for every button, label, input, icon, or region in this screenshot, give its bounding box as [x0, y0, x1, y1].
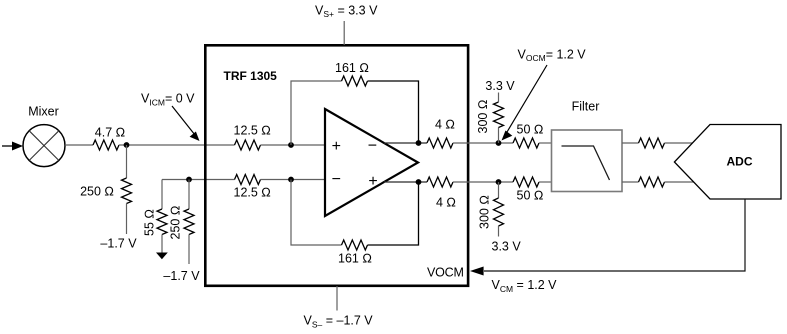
input arrow: [2, 142, 23, 151]
resistor R3 55 ohm: [143, 209, 168, 236]
wire R2 to -1.7V: [126, 204, 128, 235]
svg-text:4.7 Ω: 4.7 Ω: [95, 126, 125, 140]
svg-text:ADC: ADC: [727, 155, 753, 169]
wire fb top right leg: [368, 81, 419, 143]
wire opamp out bottom: [384, 181, 427, 183]
resistor R11 300 ohm (top): [476, 100, 504, 134]
VOCM pointer arrow: [502, 65, 548, 141]
wire node F up: [498, 128, 500, 144]
resistor R2 250 ohm: [80, 178, 131, 204]
resistor R15 (top, to ADC): [639, 138, 665, 148]
node D (fb bottom left): [288, 177, 294, 183]
wire VCM feedback: [484, 199, 745, 271]
node VICM label: [141, 92, 195, 108]
node C (fb top left): [288, 142, 294, 148]
svg-text:VICM= 0 V: VICM= 0 V: [141, 92, 195, 108]
svg-text:250 Ω: 250 Ω: [80, 185, 114, 199]
svg-text:–1.7 V: –1.7 V: [163, 269, 200, 283]
node G (out bottom): [416, 179, 422, 185]
svg-text:50 Ω: 50 Ω: [517, 123, 544, 137]
resistor R13 50 ohm (top): [513, 123, 543, 149]
resistor R4 250 ohm: [169, 206, 195, 240]
resistor R16 (bottom, to ADC): [639, 177, 665, 187]
svg-text:+: +: [368, 173, 377, 190]
wire filter out bottom: [622, 181, 639, 183]
wire R5 to opamp: [261, 144, 326, 146]
svg-text:12.5 Ω: 12.5 Ω: [234, 186, 271, 200]
wire fb bottom left leg: [291, 180, 342, 246]
wire R11 to 3.3V: [498, 93, 500, 103]
amplifier box TRF 1305: [205, 45, 468, 285]
resistor R7 161 ohm (top fb): [335, 61, 369, 86]
node H (out bottom after box): [496, 179, 502, 185]
wire node A down: [126, 145, 128, 178]
svg-text:3.3 V: 3.3 V: [492, 240, 522, 254]
resistor R12 300 ohm (bottom): [478, 195, 504, 229]
op-amp U1 (fully differential): [325, 109, 418, 216]
svg-text:−: −: [368, 138, 377, 155]
wire R1 to box: [119, 144, 235, 146]
svg-text:−: −: [332, 171, 341, 188]
resistor R8 161 ohm (bottom fb): [338, 240, 372, 266]
resistor R10 4 ohm (bottom): [427, 177, 456, 210]
resistor R1 4.7 ohm: [93, 126, 125, 151]
wire R14 to filter: [539, 181, 552, 183]
resistor R9 4 ohm (top): [427, 118, 455, 149]
svg-text:250 Ω: 250 Ω: [169, 206, 183, 240]
svg-text:3.3 V: 3.3 V: [485, 79, 515, 93]
svg-text:50 Ω: 50 Ω: [517, 189, 544, 203]
wire node B down: [188, 180, 190, 210]
svg-text:300 Ω: 300 Ω: [476, 100, 490, 134]
wire R12 to 3.3V: [498, 226, 500, 237]
svg-text:Filter: Filter: [572, 100, 600, 114]
resistor R14 50 ohm (bottom): [513, 177, 543, 203]
wire R16 to ADC: [665, 181, 694, 183]
svg-text:161 Ω: 161 Ω: [338, 252, 372, 266]
resistor R6 12.5 ohm (bottom): [234, 175, 271, 200]
wire fb top left leg: [291, 81, 342, 145]
svg-text:TRF 1305: TRF 1305: [224, 69, 278, 83]
filter block: [552, 100, 623, 192]
svg-text:+: +: [332, 138, 341, 155]
VCM arrowhead into VOCM pin: [470, 267, 484, 276]
VICM pointer arrow: [172, 106, 200, 141]
svg-text:161 Ω: 161 Ω: [335, 61, 369, 75]
ADC block: [674, 125, 781, 200]
wire R4 to -1.7V: [188, 235, 190, 265]
wire R6 to opamp: [261, 179, 326, 181]
wire filter out top: [622, 142, 639, 144]
wire R10 to node H: [453, 181, 513, 183]
mixer M1: [23, 105, 65, 167]
wire R13 to filter: [539, 142, 552, 144]
node F (out top after box): [496, 140, 502, 146]
svg-text:300 Ω: 300 Ω: [478, 195, 492, 229]
svg-text:12.5 Ω: 12.5 Ω: [234, 124, 271, 138]
wire R3 to ground: [161, 235, 163, 254]
wire fb bottom right leg: [368, 182, 419, 245]
wire R9 to node F: [453, 142, 513, 144]
supply VS- wire: [336, 286, 338, 311]
svg-text:Mixer: Mixer: [28, 105, 59, 119]
wire mixer to R1: [65, 144, 93, 146]
node B (input bottom): [186, 177, 192, 183]
svg-text:VOCM: VOCM: [427, 266, 464, 280]
ground: [156, 253, 168, 260]
wire node H down: [498, 182, 500, 198]
wire opamp out top: [384, 142, 427, 144]
svg-text:4 Ω: 4 Ω: [435, 118, 455, 132]
node A (input top): [124, 142, 130, 148]
wire bottom input rail: [162, 179, 235, 181]
wire node B to R3: [161, 180, 163, 210]
resistor R5 12.5 ohm (top): [234, 124, 271, 151]
node E (out top): [416, 140, 422, 146]
wire R15 to ADC: [665, 142, 693, 144]
svg-text:4 Ω: 4 Ω: [436, 196, 456, 210]
svg-text:–1.7 V: –1.7 V: [100, 237, 137, 251]
svg-text:55 Ω: 55 Ω: [143, 209, 157, 236]
supply VS+ wire: [343, 21, 345, 45]
